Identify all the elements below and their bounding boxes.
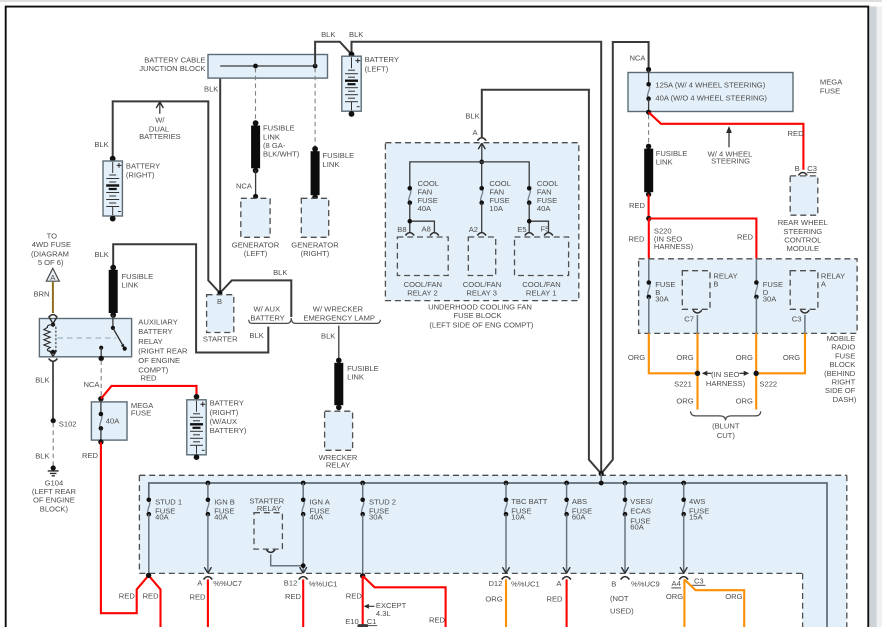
svg-text:(LEFT): (LEFT) xyxy=(365,65,389,74)
svg-text:40A: 40A xyxy=(418,204,432,213)
svg-text:USED): USED) xyxy=(610,607,634,616)
wire ORG fuse B to S221 xyxy=(649,333,695,373)
svg-text:60A: 60A xyxy=(630,523,644,532)
wire feed rail xyxy=(410,162,529,188)
relay coil entry arrow xyxy=(49,318,56,324)
svg-text:125A (W/ 4 WHEEL STEERING): 125A (W/ 4 WHEEL STEERING) xyxy=(655,81,765,90)
in seo harness arrows xyxy=(705,372,712,374)
svg-text:S102: S102 xyxy=(59,420,77,429)
node feed junction xyxy=(479,160,484,165)
fusible link (left column) xyxy=(110,265,116,271)
svg-text:C1: C1 xyxy=(367,617,377,626)
svg-text:D12: D12 xyxy=(488,579,502,588)
connector cup C3 xyxy=(801,310,810,313)
svg-text:BLK: BLK xyxy=(249,331,263,340)
svg-text:ORG: ORG xyxy=(736,353,753,362)
svg-text:LINK: LINK xyxy=(347,373,364,382)
connector blob at bottom edge xyxy=(357,624,368,627)
svg-text:40A: 40A xyxy=(537,204,551,213)
terminal A2 xyxy=(477,233,486,236)
svg-text:(DIAGRAM: (DIAGRAM xyxy=(31,249,69,258)
svg-text:RELAY: RELAY xyxy=(138,337,162,346)
wire ORG fuse D to S222 blunt cut xyxy=(755,333,757,409)
connector dome C3 xyxy=(798,173,807,176)
node mega fuse bottom xyxy=(98,439,103,444)
node S220 xyxy=(646,216,651,221)
cool/fan relay 1 box xyxy=(515,237,569,276)
svg-text:RADIO: RADIO xyxy=(831,343,855,352)
wire relay to S102 (BLK) xyxy=(52,362,54,419)
svg-text:STARTER: STARTER xyxy=(203,335,238,344)
dashed wire to fusible link 8GA xyxy=(255,68,257,121)
mega fuse (left) box xyxy=(91,402,127,440)
svg-text:BLK/WHT): BLK/WHT) xyxy=(263,150,300,159)
svg-text:MODULE: MODULE xyxy=(787,244,820,253)
wire: brace peak to starter B (BLK) xyxy=(220,280,291,317)
svg-text:JUNCTION BLOCK: JUNCTION BLOCK xyxy=(139,64,205,73)
svg-text:40A (W/O 4 WHEEL STEERING): 40A (W/O 4 WHEEL STEERING) xyxy=(655,94,767,103)
svg-text:IGN B: IGN B xyxy=(214,497,235,506)
svg-text:RED: RED xyxy=(429,615,446,624)
dashed wire NCA relay to mega fuse xyxy=(100,361,102,397)
wire to generator left xyxy=(255,171,257,197)
svg-text:NCA: NCA xyxy=(236,181,253,190)
svg-text:HARNESS): HARNESS) xyxy=(654,242,694,251)
svg-text:BLOCK): BLOCK) xyxy=(40,504,69,513)
svg-text:ORG: ORG xyxy=(725,592,742,601)
svg-text:ECAS: ECAS xyxy=(630,507,651,516)
mega fuse box xyxy=(628,73,793,112)
wire ORG 4ws down xyxy=(683,579,685,627)
svg-text:RED: RED xyxy=(119,591,136,600)
node S222 xyxy=(754,371,759,376)
node starter B xyxy=(217,291,222,296)
battery (right w/aux) xyxy=(194,394,200,400)
svg-text:BLK: BLK xyxy=(95,250,109,259)
wire ORG 4ws branch to C3 xyxy=(684,579,744,627)
svg-text:BLK: BLK xyxy=(465,112,479,121)
fusible link (8 GA-BLK/WHT) xyxy=(253,120,259,126)
svg-text:BATTERY: BATTERY xyxy=(126,161,160,170)
svg-text:FUSE: FUSE xyxy=(131,409,151,418)
node junction dot 1 xyxy=(253,64,258,69)
svg-text:TO: TO xyxy=(47,231,58,240)
svg-text:FUSIBLE: FUSIBLE xyxy=(263,124,295,133)
svg-text:(BLUNT: (BLUNT xyxy=(712,421,740,430)
svg-text:(RIGHT): (RIGHT) xyxy=(210,408,239,417)
svg-text:%%UC7: %%UC7 xyxy=(213,579,242,588)
node stud1 exit xyxy=(146,573,151,578)
svg-text:B: B xyxy=(217,297,222,306)
svg-text:BATTERY: BATTERY xyxy=(210,399,244,408)
brace w/aux battery - w/wrecker xyxy=(249,318,381,323)
wrecker relay box xyxy=(325,411,353,450)
node NCA dot xyxy=(646,67,651,72)
svg-text:NCA: NCA xyxy=(83,380,100,389)
fuse cool fan 10A mid xyxy=(479,186,484,205)
svg-text:RELAY: RELAY xyxy=(257,504,281,513)
wire BRN xyxy=(52,282,54,313)
svg-text:TBC BATT: TBC BATT xyxy=(511,497,548,506)
right gray band xyxy=(870,7,877,627)
svg-text:RELAY: RELAY xyxy=(326,460,350,469)
fuse cool fan 40A left xyxy=(408,186,413,205)
svg-text:E10: E10 xyxy=(345,617,359,626)
fuse IGN B 40A xyxy=(206,481,211,486)
relay A box xyxy=(790,271,818,310)
svg-text:BLK: BLK xyxy=(321,331,335,340)
svg-text:ORG: ORG xyxy=(676,353,693,362)
dashed wire S102 to G104 xyxy=(52,423,54,466)
fuse STUD 2 30A xyxy=(360,481,365,486)
svg-text:MEGA: MEGA xyxy=(820,77,843,86)
svg-text:RIGHT: RIGHT xyxy=(832,378,856,387)
svg-text:RED: RED xyxy=(140,373,157,382)
wire RED ign b xyxy=(207,579,209,627)
svg-text:A2: A2 xyxy=(469,225,478,234)
svg-text:EMERGENCY LAMP: EMERGENCY LAMP xyxy=(303,313,375,322)
svg-text:40A: 40A xyxy=(155,513,169,522)
wire ORG C7 to S221 blunt cut xyxy=(696,333,698,409)
node junction dot 2 xyxy=(313,64,318,69)
svg-text:60A: 60A xyxy=(572,513,586,522)
terminal E5 xyxy=(525,233,534,236)
svg-text:RED: RED xyxy=(189,593,206,602)
svg-text:F5: F5 xyxy=(541,224,550,233)
dashed wire to fusible link 2 xyxy=(314,68,316,147)
svg-text:FUSIBLE: FUSIBLE xyxy=(122,272,154,281)
wire: battery right to starter B (BLK) xyxy=(113,101,220,293)
svg-text:(LEFT): (LEFT) xyxy=(244,249,268,258)
svg-text:4WS: 4WS xyxy=(689,497,705,506)
node S (mega fuse top) xyxy=(98,396,103,401)
wire: junction to battery left and on to bottom bus (BLK) xyxy=(315,42,601,474)
fuse 40A xyxy=(99,412,104,431)
wire RED S220 to fuse D xyxy=(649,219,757,259)
fusible link (wrecker) xyxy=(336,358,342,364)
starter box xyxy=(207,295,234,333)
svg-text:ORG: ORG xyxy=(666,592,683,601)
svg-text:(RIGHT): (RIGHT) xyxy=(126,170,155,179)
svg-text:5 OF 6): 5 OF 6) xyxy=(38,258,64,267)
svg-text:BRN: BRN xyxy=(33,290,49,299)
svg-text:W/: W/ xyxy=(155,115,165,124)
svg-text:C3: C3 xyxy=(807,164,817,173)
fuse 4WS 15A xyxy=(681,481,686,486)
relay common contact xyxy=(99,346,103,350)
svg-text:30A: 30A xyxy=(655,295,669,304)
wire: fusible link left to W/AUX brace (BLK) xyxy=(113,244,268,352)
svg-text:LINK: LINK xyxy=(323,160,340,169)
generator (left) box xyxy=(241,198,270,237)
relay coil xyxy=(44,325,53,352)
auxiliary battery relay box xyxy=(39,319,131,357)
svg-text:BATTERY: BATTERY xyxy=(250,313,284,322)
svg-text:ORG: ORG xyxy=(783,353,800,362)
svg-text:30A: 30A xyxy=(763,295,777,304)
svg-text:REAR WHEEL: REAR WHEEL xyxy=(778,218,828,227)
svg-text:RED: RED xyxy=(143,591,160,600)
wire to E5/F5 xyxy=(529,203,548,233)
battery (left) xyxy=(349,52,355,58)
svg-text:RED: RED xyxy=(628,234,645,243)
svg-text:C3: C3 xyxy=(792,314,802,323)
svg-text:STEERING: STEERING xyxy=(711,157,750,166)
svg-text:30A: 30A xyxy=(369,513,383,522)
svg-text:10A: 10A xyxy=(489,204,503,213)
relay interaction dashed line xyxy=(58,337,117,339)
connector triangle A xyxy=(46,268,59,281)
fuse 125A/40A xyxy=(646,82,651,101)
wire A entry to bus (BLK) xyxy=(482,90,601,474)
wire RED mega fuse to stud1 xyxy=(101,442,149,613)
svg-text:VSES/: VSES/ xyxy=(630,497,653,506)
svg-text:DASH): DASH) xyxy=(833,395,857,404)
node S221 xyxy=(695,371,700,376)
svg-text:FUSIBLE: FUSIBLE xyxy=(323,151,355,160)
svg-text:40A: 40A xyxy=(106,416,120,425)
svg-text:ORG: ORG xyxy=(676,396,693,405)
wire brace to wrecker fusible link xyxy=(338,326,340,359)
svg-text:(W/AUX: (W/AUX xyxy=(210,417,237,426)
node stud2 exit xyxy=(360,573,365,578)
svg-text:ORG: ORG xyxy=(628,353,645,362)
connector dome (relay coil entry) xyxy=(49,315,58,318)
svg-text:BATTERIES: BATTERIES xyxy=(139,132,181,141)
relay switch xyxy=(112,315,114,328)
svg-text:15A: 15A xyxy=(689,513,703,522)
svg-text:RELAY 1: RELAY 1 xyxy=(526,288,557,297)
svg-text:%%UC1: %%UC1 xyxy=(511,579,540,588)
relay coil exit arrow xyxy=(49,350,56,356)
svg-text:%%UC1: %%UC1 xyxy=(309,579,338,588)
svg-text:(NOT: (NOT xyxy=(610,594,629,603)
svg-text:RELAY 3: RELAY 3 xyxy=(466,288,497,297)
connector cup (relay exit) xyxy=(49,359,58,362)
underhood block box xyxy=(385,143,578,301)
svg-text:RED: RED xyxy=(737,233,754,242)
wire RED to rear wheel module xyxy=(649,112,804,170)
svg-text:RED: RED xyxy=(285,592,302,601)
window top hairline xyxy=(0,0,882,2)
wire RED abs xyxy=(566,579,568,627)
terminal B8 xyxy=(405,233,414,236)
wire to B8/A8 xyxy=(410,203,435,233)
svg-text:STUD 2: STUD 2 xyxy=(369,497,396,506)
cool/fan relay 3 box xyxy=(468,237,495,276)
svg-text:RED: RED xyxy=(346,592,363,601)
block dashed borders xyxy=(139,474,846,476)
wire RED stud2 branch xyxy=(363,576,446,627)
node mega fuse bottom xyxy=(646,110,651,115)
svg-text:LINK: LINK xyxy=(656,158,673,167)
svg-text:B: B xyxy=(611,579,616,588)
svg-text:BLK: BLK xyxy=(349,30,363,39)
svg-text:ABS: ABS xyxy=(572,497,587,506)
node S102 xyxy=(51,418,56,423)
dashed wire mega fuse to fusible link xyxy=(648,115,650,144)
bus bar xyxy=(149,483,827,627)
svg-text:E5: E5 xyxy=(517,225,526,234)
relay B box xyxy=(682,271,710,310)
svg-text:%%UC9: %%UC9 xyxy=(631,580,660,589)
arrow except 4.3L xyxy=(367,605,375,607)
terminal A8 xyxy=(430,233,439,236)
svg-text:10A: 10A xyxy=(511,513,525,522)
svg-text:C7: C7 xyxy=(684,314,694,323)
terminal F5 xyxy=(544,233,553,236)
wire RED ign a xyxy=(302,579,304,627)
entry arrow xyxy=(478,143,485,149)
arrow w/dual batteries xyxy=(159,104,161,114)
rear wheel steering control module box xyxy=(790,176,818,215)
starter relay box xyxy=(254,513,282,549)
svg-text:BATTERY): BATTERY) xyxy=(210,426,247,435)
svg-text:BATTERY: BATTERY xyxy=(138,327,172,336)
wire ORG C3 to S222 xyxy=(759,333,805,373)
svg-text:40A: 40A xyxy=(214,513,228,522)
fusible link (generator right) xyxy=(312,146,318,152)
svg-text:B8: B8 xyxy=(397,225,406,234)
connector cup C7 xyxy=(693,310,702,313)
svg-text:BATTERY: BATTERY xyxy=(365,55,399,64)
fuse TBC BATT 10A xyxy=(504,481,509,486)
wire RED S220 to fuse B xyxy=(648,219,650,259)
svg-text:LINK: LINK xyxy=(122,281,139,290)
svg-text:(RIGHT): (RIGHT) xyxy=(301,249,330,258)
svg-text:FUSIBLE: FUSIBLE xyxy=(656,149,688,158)
fuse IGN A 40A xyxy=(301,481,306,486)
wire ORG tbc xyxy=(505,579,507,627)
svg-text:FUSE BLOCK: FUSE BLOCK xyxy=(453,311,501,320)
svg-text:MOBILE: MOBILE xyxy=(827,334,856,343)
fuse D 30A xyxy=(755,259,757,283)
svg-text:40A: 40A xyxy=(310,513,324,522)
svg-text:BLK: BLK xyxy=(35,452,49,461)
svg-text:BLK: BLK xyxy=(94,140,108,149)
svg-text:B12: B12 xyxy=(284,579,298,588)
svg-text:ORG: ORG xyxy=(485,595,502,604)
fuse STUD 1 40A xyxy=(147,498,152,517)
entry dome A xyxy=(477,138,486,141)
wire RED to battery w/aux xyxy=(101,386,197,399)
fuse cool fan 40A right xyxy=(527,186,532,205)
svg-text:W/ AUX: W/ AUX xyxy=(254,304,281,313)
svg-text:BLK: BLK xyxy=(204,84,218,93)
svg-text:HARNESS): HARNESS) xyxy=(706,379,746,388)
fusible link (4ws) xyxy=(646,144,651,149)
svg-text:4WD FUSE: 4WD FUSE xyxy=(32,240,71,249)
svg-text:FUSE: FUSE xyxy=(835,351,855,360)
svg-text:STEERING: STEERING xyxy=(783,227,822,236)
fuse B 30A xyxy=(648,259,650,283)
svg-text:(BEHIND: (BEHIND xyxy=(824,369,856,378)
ground G104 xyxy=(51,465,56,470)
svg-text:FUSE: FUSE xyxy=(820,86,840,95)
block fill xyxy=(139,475,846,627)
svg-text:A4: A4 xyxy=(672,579,681,588)
svg-text:B: B xyxy=(795,164,800,173)
svg-text:IGN A: IGN A xyxy=(310,497,331,506)
svg-text:RED: RED xyxy=(546,595,563,604)
svg-text:SIDE OF: SIDE OF xyxy=(825,386,856,395)
svg-text:RED: RED xyxy=(629,201,646,210)
svg-text:C3: C3 xyxy=(694,577,704,586)
svg-text:S221: S221 xyxy=(674,380,692,389)
svg-text:FUSIBLE: FUSIBLE xyxy=(347,364,379,373)
wire NCA branch from bus up to mega fuse (right) xyxy=(601,42,648,474)
generator (right) box xyxy=(301,198,328,237)
wire RED stud1 down right xyxy=(149,575,161,627)
underbrace blunt cut xyxy=(691,411,761,420)
svg-text:NCA: NCA xyxy=(629,53,646,62)
svg-text:STUD 1: STUD 1 xyxy=(155,497,182,506)
svg-text:BLK: BLK xyxy=(35,376,49,385)
svg-text:4.3L: 4.3L xyxy=(376,609,391,618)
arrow w/4 wheel steering xyxy=(728,132,730,147)
svg-text:ORG: ORG xyxy=(736,396,753,405)
wire inside junction block xyxy=(220,65,315,67)
svg-text:AUXILIARY: AUXILIARY xyxy=(138,318,178,327)
battery (right) xyxy=(110,156,116,162)
svg-text:BLK: BLK xyxy=(273,268,287,277)
svg-text:CUT): CUT) xyxy=(717,431,736,440)
svg-text:RELAY 2: RELAY 2 xyxy=(407,288,438,297)
wire RED to S220 xyxy=(648,194,650,218)
svg-text:BLK: BLK xyxy=(321,30,335,39)
svg-text:B: B xyxy=(713,279,718,288)
svg-text:(LEFT REAR: (LEFT REAR xyxy=(32,487,77,496)
wire: junction block to starter B (BLK) xyxy=(219,66,221,293)
wire to A2 xyxy=(481,203,483,233)
node bus entry xyxy=(599,471,604,476)
fuse VSES/ECAS 60A xyxy=(623,481,628,486)
svg-text:BLOCK: BLOCK xyxy=(830,360,856,369)
cool/fan relay 2 box xyxy=(397,237,448,276)
svg-text:RED: RED xyxy=(82,451,99,460)
svg-text:S222: S222 xyxy=(759,380,777,389)
svg-text:A8: A8 xyxy=(422,224,431,233)
svg-text:W/ WRECKER: W/ WRECKER xyxy=(313,304,364,313)
svg-text:RED: RED xyxy=(788,129,805,138)
svg-text:OF ENGINE: OF ENGINE xyxy=(138,356,180,365)
battery cable junction block xyxy=(208,55,328,79)
svg-text:OF ENGINE: OF ENGINE xyxy=(33,496,75,505)
wire RED stud2 down xyxy=(362,576,364,627)
svg-text:(LEFT SIDE OF ENG COMPT): (LEFT SIDE OF ENG COMPT) xyxy=(429,321,534,330)
svg-text:(RIGHT REAR: (RIGHT REAR xyxy=(138,346,188,355)
fuse ABS 60A xyxy=(564,481,569,486)
